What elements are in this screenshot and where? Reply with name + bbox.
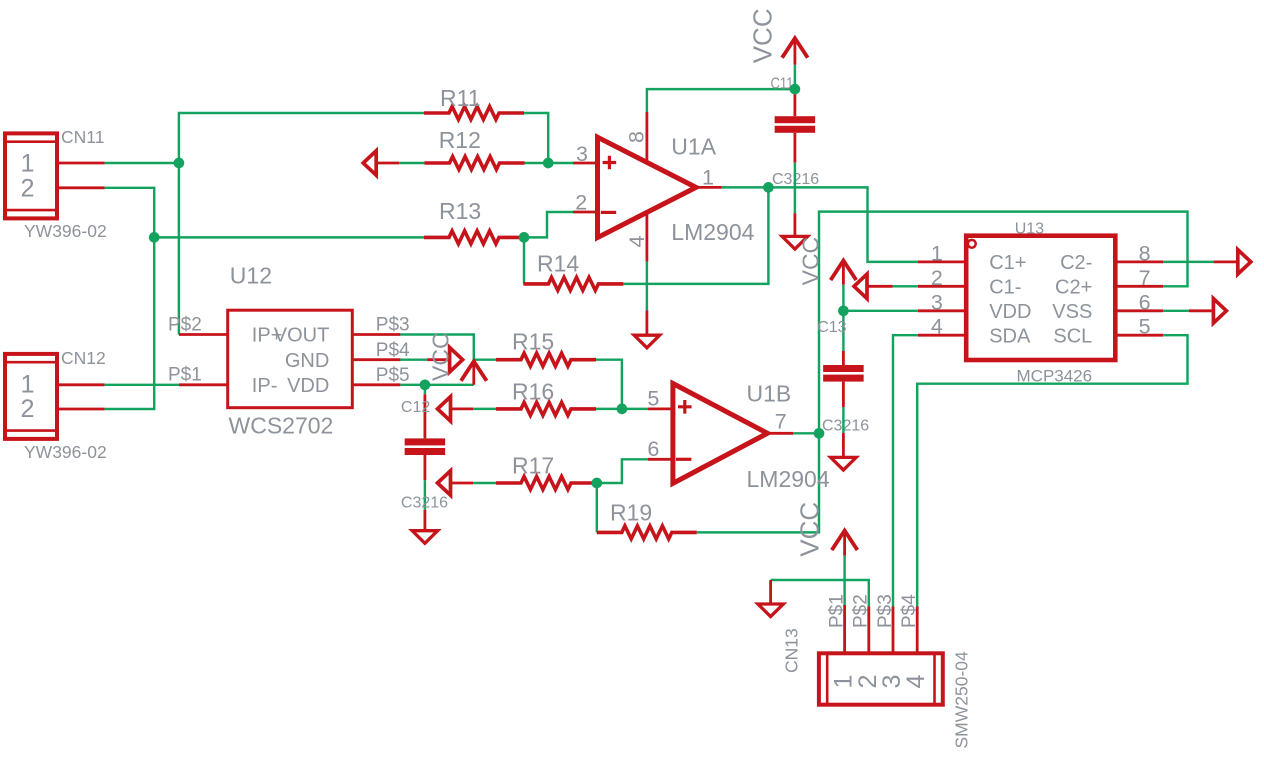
wire C13 to gnd (842, 407, 844, 433)
pin U1A-1 (696, 186, 722, 189)
wire out up to U13 pin7 (819, 212, 1188, 434)
pin U13-5 (1115, 334, 1163, 337)
wire pin2 stub (893, 285, 918, 287)
sensor U12 box (228, 310, 353, 408)
pin U12 P$4 (352, 358, 400, 361)
svg-text:P$2: P$2 (851, 594, 872, 628)
resistor R14 (523, 277, 623, 290)
svg-text:U12: U12 (230, 263, 272, 289)
pin number 2 (U13) (931, 266, 943, 290)
svg-text:VSS: VSS (1052, 301, 1092, 323)
ground C11 (782, 213, 808, 249)
junction R13 (519, 232, 530, 243)
pin arrow-U13-6 (1189, 309, 1212, 312)
pin U13-2 (918, 285, 966, 288)
pin number 8 (U1A) (624, 131, 648, 143)
label C3216 (C11) (772, 171, 819, 188)
pin label P$4 (CN13) (899, 594, 920, 628)
wire pin6 out (1163, 310, 1189, 312)
svg-text:P$3: P$3 (376, 315, 410, 336)
pin 2 label CN12 (20, 395, 34, 423)
plus sign U1B (678, 400, 692, 414)
svg-text:U1A: U1A (671, 134, 716, 160)
capacitor C11 (775, 89, 816, 163)
ground U1A (634, 311, 660, 348)
svg-text:8: 8 (624, 131, 648, 143)
svg-text:VDD: VDD (989, 301, 1031, 323)
pin U13-4 (918, 334, 966, 337)
pin U1B-5 (648, 407, 675, 410)
junction node IP+ (174, 158, 185, 169)
pin U13-8 (1115, 260, 1163, 263)
svg-text:R14: R14 (537, 251, 579, 277)
wire pin4 to gnd (646, 262, 648, 311)
svg-text:P$2: P$2 (168, 315, 202, 336)
svg-text:P$3: P$3 (875, 594, 896, 628)
pin name VDD (287, 375, 329, 397)
svg-text:4: 4 (902, 674, 930, 688)
pin CN13 P$2 (867, 607, 870, 654)
pin number 1 (U1A) (702, 166, 714, 190)
svg-text:P$4: P$4 (376, 340, 410, 361)
svg-text:P$4: P$4 (899, 594, 920, 628)
pin U13-7 (1115, 285, 1163, 288)
pin number 1 (U13) (931, 241, 943, 265)
pin arrow-R17 (451, 482, 474, 485)
wire P$4 (400, 358, 427, 360)
svg-text:U1B: U1B (747, 381, 792, 407)
capacitor C13 (823, 311, 864, 407)
adc U13 box (966, 236, 1115, 360)
svg-text:R11: R11 (440, 85, 481, 111)
pin U12 P$2 (179, 333, 228, 336)
wire junction down to R19 (596, 483, 598, 532)
label R17 (512, 453, 554, 479)
wire P$5 (400, 384, 425, 386)
label R13 (439, 198, 481, 224)
svg-text:P$5: P$5 (376, 365, 410, 386)
resistor R13 (424, 231, 524, 244)
label R12 (439, 127, 481, 153)
wire gnd rail CN13 (771, 580, 869, 607)
wire R16 to junction (596, 408, 622, 410)
junction R12/R11 (543, 158, 554, 169)
supply arrow P$4 (450, 347, 463, 372)
wire pin8 out (1163, 261, 1213, 263)
wire C11 to gnd (794, 163, 796, 214)
pin name C2- (1060, 252, 1092, 274)
wire R12 to junction (525, 162, 549, 164)
wire junction down to U12 P$2 (178, 163, 180, 335)
resistor R11 (424, 107, 524, 120)
wire junction to R13 (154, 236, 424, 238)
wire U1B out (793, 432, 819, 434)
wire junction up to R11 (179, 113, 424, 163)
pin name C1- (989, 277, 1021, 299)
label R11 (440, 85, 481, 111)
svg-text:C12: C12 (401, 399, 430, 416)
svg-text:C13: C13 (817, 319, 846, 336)
svg-text:6: 6 (647, 437, 659, 461)
svg-text:1: 1 (20, 150, 34, 178)
pin label P$3 (376, 315, 410, 336)
junction pin5 (617, 404, 628, 415)
svg-text:VCC: VCC (428, 332, 454, 381)
pin U12 P$1 (179, 383, 228, 386)
wire arrow to R17 (473, 482, 496, 484)
resistor R19 (597, 526, 697, 539)
label U1A (671, 134, 716, 160)
wire R11 right (524, 113, 548, 163)
pin CN11-1 (57, 162, 105, 165)
label R15 (512, 329, 554, 355)
wire VCC stub U13 (842, 285, 844, 311)
pin CN12-2 (57, 408, 105, 411)
svg-text:IP-: IP- (252, 375, 278, 397)
ground C13 (831, 433, 857, 470)
pin number 4 (U1A) (625, 236, 649, 248)
pin number 6 (U1B) (647, 437, 659, 461)
wire pin8 to VCC rail (647, 89, 795, 112)
pin name SCL (1053, 326, 1092, 348)
connector CN13 box (819, 653, 943, 704)
svg-text:U13: U13 (1015, 221, 1044, 238)
label C11 (771, 76, 794, 93)
pin number 8 (U13) (1139, 241, 1151, 265)
pin label P$5 (376, 365, 410, 386)
wire R14 right to output (623, 187, 768, 284)
label SMW250-04 (952, 651, 972, 749)
wire CN11-1 to junction (105, 162, 179, 164)
capacitor C12 (405, 385, 446, 480)
junction node IP- (149, 232, 160, 243)
svg-text:LM2904: LM2904 (747, 466, 830, 492)
pin 2 label CN13 (854, 674, 882, 688)
wire C12 to gnd (424, 480, 426, 510)
svg-text:YW396-02: YW396-02 (24, 442, 107, 462)
pin 3 label CN13 (878, 674, 906, 688)
wire P$5 to VCC (425, 384, 474, 386)
wire SCL (917, 335, 1187, 606)
pin CN11-2 (57, 186, 105, 189)
pin U1A-4 (646, 212, 649, 261)
label R19 (610, 500, 652, 526)
pin name VSS (1052, 301, 1092, 323)
svg-text:GND: GND (285, 350, 329, 372)
wire VCC to P$1 (843, 556, 845, 605)
supply arrow at R17 (438, 471, 451, 496)
wire junction down to CN12-2 (105, 237, 155, 409)
wire pin3 to junction (843, 310, 917, 312)
pin 1 label CN11 (20, 150, 34, 178)
pin number 2 (U1A) (575, 191, 587, 215)
pin 4 label CN13 (902, 674, 930, 688)
wire R15 to pin5 junction (596, 360, 622, 409)
pin U1A-3 (573, 162, 600, 165)
wire P$3 to R15 (400, 335, 496, 360)
label C3216 (C12) (401, 495, 448, 512)
label C3216 (U1B) (822, 418, 869, 435)
pin name C2+ (1055, 277, 1092, 299)
wire CN11-2 to corner (105, 188, 155, 238)
wire CN12-1 to U12 P$1 (105, 384, 179, 386)
svg-text:5: 5 (647, 386, 659, 410)
svg-text:CN12: CN12 (61, 348, 106, 368)
pin U12 P$5 (352, 383, 400, 386)
svg-text:C2-: C2- (1060, 252, 1092, 274)
svg-text:R19: R19 (610, 500, 652, 526)
connector CN12 (5, 354, 57, 439)
svg-text:P$1: P$1 (827, 594, 848, 628)
svg-text:R15: R15 (512, 329, 554, 355)
pin 1 label CN13 (830, 674, 858, 688)
pin name VOUT (274, 325, 330, 347)
pin U1B-6 (648, 458, 675, 461)
svg-text:2: 2 (575, 191, 587, 215)
wire arrow to R16 (473, 408, 496, 410)
pin name IP+ (252, 325, 283, 347)
label LM2904 (U1B) (747, 466, 830, 492)
pin label P$2 (CN13) (851, 594, 872, 628)
wire arrow to R12 (399, 162, 424, 164)
pin U13-3 (918, 309, 966, 312)
plus sign U1A (603, 156, 617, 170)
wire junction to pin5 (622, 408, 648, 410)
svg-text:YW396-02: YW396-02 (24, 221, 107, 241)
pin CN13 P$4 (916, 607, 919, 654)
wire R19 to output (697, 433, 819, 532)
junction VCC top (790, 84, 801, 95)
pin number 3 (U1A) (576, 142, 588, 166)
svg-text:R12: R12 (439, 127, 481, 153)
supply arrow U13 pin8 (1238, 250, 1251, 275)
wire VCC stub (794, 65, 796, 90)
junction VDD U13 (838, 305, 849, 316)
supply arrow U13 pin6 (1213, 299, 1226, 324)
svg-text:SCL: SCL (1053, 326, 1092, 348)
label YW396-02 (CN12) (24, 442, 107, 462)
svg-text:C1-: C1- (989, 277, 1021, 299)
pin arrow-R12 (376, 162, 400, 165)
supply VCC P$5 (461, 361, 487, 385)
pin number 7 (U1B) (775, 410, 787, 434)
pin label P$3 (CN13) (875, 594, 896, 628)
pin U12 P$3 (352, 333, 400, 336)
pin arrow-U13-2 (868, 285, 893, 288)
svg-text:1: 1 (20, 370, 34, 398)
svg-text:C3216: C3216 (822, 418, 869, 435)
svg-text:C2+: C2+ (1055, 277, 1092, 299)
svg-text:VOUT: VOUT (274, 325, 330, 347)
pin CN13 P$3 (892, 607, 895, 654)
pin U13-1 (918, 260, 966, 263)
label CN11 (61, 127, 104, 147)
resistor R12 (425, 157, 525, 170)
pin U1B-7 (767, 432, 793, 435)
pin 2 label CN11 (20, 174, 34, 202)
junction R17 (591, 478, 602, 489)
svg-text:C1+: C1+ (989, 252, 1026, 274)
label U12 (230, 263, 272, 289)
svg-text:3: 3 (576, 142, 588, 166)
ground C12 (412, 510, 438, 544)
pin U13-6 (1115, 309, 1163, 312)
pin number 7 (U13) (1139, 266, 1151, 290)
svg-text:1: 1 (931, 241, 943, 265)
wire SDA (893, 335, 918, 606)
pin label P$2 (168, 315, 202, 336)
label VCC (P$4) (428, 332, 454, 381)
op-amp U1B (673, 384, 768, 484)
wire R13 junction down to R14 (523, 237, 525, 284)
label MCP3426 (1017, 367, 1093, 386)
svg-text:4: 4 (931, 315, 943, 339)
pin U1A-8 (646, 112, 649, 161)
supply arrow at R16 (438, 397, 451, 422)
svg-text:VCC: VCC (798, 237, 824, 286)
label CN13 (782, 628, 802, 673)
minus sign U1B (676, 458, 691, 461)
svg-text:LM2904: LM2904 (671, 219, 754, 245)
svg-text:SMW250-04: SMW250-04 (952, 651, 972, 749)
pin name IP- (252, 375, 278, 397)
svg-text:4: 4 (625, 236, 649, 248)
pin label P$4 (376, 340, 410, 361)
pin label P$1 (CN13) (827, 594, 848, 628)
wire R17 to junction (595, 482, 598, 484)
svg-text:R16: R16 (512, 379, 554, 405)
junction P$5 (420, 379, 431, 390)
pin name C1+ (989, 252, 1026, 274)
pin U1A-2 (573, 211, 600, 214)
pin name SDA (989, 326, 1031, 348)
svg-text:7: 7 (1139, 266, 1151, 290)
supply VCC CN13 (832, 531, 858, 556)
pin number 5 (U13) (1139, 315, 1151, 339)
svg-text:1: 1 (702, 166, 714, 190)
wire junction to op-amp pin3 (548, 162, 573, 164)
svg-text:CN11: CN11 (61, 127, 104, 147)
ground CN13 (758, 580, 784, 617)
supply arrow U13 pin2 (854, 274, 867, 299)
label C12 (401, 399, 430, 416)
svg-text:P$1: P$1 (168, 365, 202, 386)
label C13 (817, 319, 846, 336)
minus sign U1A (601, 211, 616, 214)
svg-text:5: 5 (1139, 315, 1151, 339)
svg-text:R13: R13 (439, 198, 481, 224)
label VCC (CN13) (794, 502, 824, 557)
resistor R17 (496, 477, 596, 490)
svg-text:CN13: CN13 (782, 628, 802, 673)
svg-text:VDD: VDD (287, 375, 329, 397)
wire out to U13 pin1 (768, 187, 917, 262)
label U13 (1015, 221, 1044, 238)
label LM2904 (U1A) (671, 219, 754, 245)
pin 1 label CN12 (20, 370, 34, 398)
junction U1A out (763, 182, 774, 193)
svg-text:VCC: VCC (748, 8, 778, 63)
svg-text:2: 2 (20, 395, 34, 423)
pin CN12-1 (57, 383, 105, 386)
supply VCC U13 (831, 261, 857, 285)
wire R13 junction up to pin2 (524, 212, 573, 237)
resistor R16 (496, 402, 596, 415)
svg-text:C3216: C3216 (401, 495, 448, 512)
svg-text:8: 8 (1139, 241, 1151, 265)
label YW396-02 (CN11) (24, 221, 107, 241)
svg-text:6: 6 (1139, 290, 1151, 314)
junction U1B out (814, 428, 825, 439)
label U1B (747, 381, 792, 407)
pin name VDD (U13) (989, 301, 1031, 323)
pin number 6 (U13) (1139, 290, 1151, 314)
label CN12 (61, 348, 106, 368)
supply VCC top (782, 38, 808, 64)
wire junction to pin6 (597, 459, 648, 483)
svg-text:WCS2702: WCS2702 (229, 413, 334, 439)
wire U1A out (722, 186, 769, 188)
pin label P$1 (168, 365, 202, 386)
label R14 (537, 251, 579, 277)
pin number 4 (U13) (931, 315, 943, 339)
pin number 3 (U13) (931, 290, 943, 314)
label VCC top (748, 8, 778, 63)
op-amp U1A (598, 137, 697, 237)
svg-text:R17: R17 (512, 453, 554, 479)
label VCC (U13) (798, 237, 824, 286)
pin arrow-R16 (451, 407, 474, 410)
connector CN11 (5, 133, 57, 218)
label WCS2702 (229, 413, 334, 439)
pin1 dot circle U13 (968, 240, 976, 248)
resistor R15 (496, 353, 596, 366)
svg-text:2: 2 (20, 174, 34, 202)
svg-text:VCC: VCC (794, 502, 824, 557)
svg-text:7: 7 (775, 410, 787, 434)
label R16 (512, 379, 554, 405)
pin arrow-P$4 (427, 358, 450, 361)
pin name GND (285, 350, 329, 372)
pin arrow-U13-8 (1214, 260, 1237, 263)
supply arrow at R12 (363, 151, 376, 176)
svg-text:SDA: SDA (989, 326, 1031, 348)
svg-text:3: 3 (931, 290, 943, 314)
pin number 5 (U1B) (647, 386, 659, 410)
pin CN13 P$1 (843, 605, 846, 653)
svg-text:2: 2 (931, 266, 943, 290)
